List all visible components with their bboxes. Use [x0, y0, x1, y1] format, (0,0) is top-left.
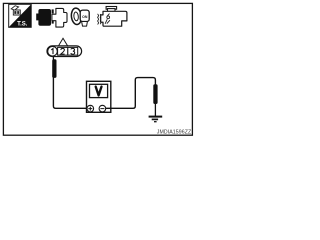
icon disconnect connector: [36, 8, 67, 27]
ground: [149, 117, 163, 122]
plus terminal: [87, 105, 94, 112]
connector body pins 1 2 3: [47, 46, 82, 57]
wire minus terminal to probe: [106, 78, 156, 109]
voltmeter box: [87, 81, 111, 112]
test probe negative: [153, 84, 157, 104]
svg-text:JMDIA1596ZZ: JMDIA1596ZZ: [157, 130, 192, 136]
svg-text:T.S.: T.S.: [17, 22, 28, 28]
minus terminal: [99, 105, 106, 112]
wire pin1 to probe: [52, 56, 54, 60]
wire probe to voltmeter plus terminal: [53, 78, 87, 109]
test probe positive: [52, 59, 56, 78]
icon engine running: [98, 7, 127, 27]
connector index tab: [58, 38, 67, 46]
wire probe to ground: [154, 103, 156, 116]
border frame: [3, 3, 192, 135]
icon ignition key ON: [71, 8, 90, 26]
svg-text:ON: ON: [82, 15, 88, 19]
icon T.S. tool symbol: [9, 4, 32, 27]
